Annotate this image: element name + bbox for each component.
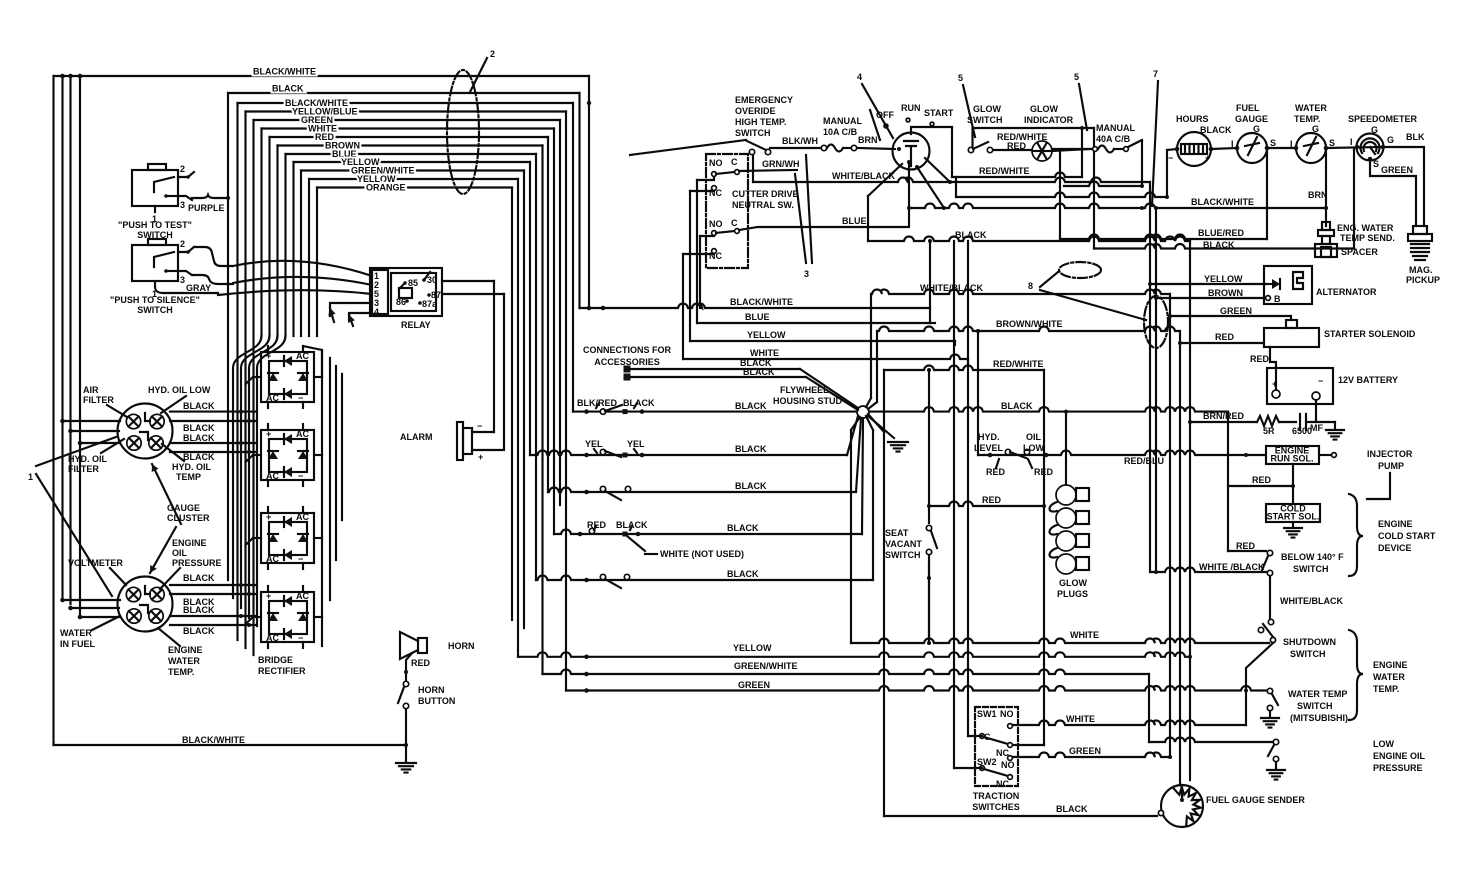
svg-text:I: I <box>1350 137 1353 147</box>
svg-text:START SOL.: START SOL. <box>1267 512 1320 522</box>
svg-text:−: − <box>1168 153 1173 163</box>
svg-text:SHUTDOWN: SHUTDOWN <box>1283 637 1336 647</box>
svg-text:BROWN/WHITE: BROWN/WHITE <box>996 319 1063 329</box>
wires left bus to upper cluster <box>63 420 121 422</box>
svg-text:S: S <box>1329 138 1335 148</box>
svg-text:BLACK/WHITE: BLACK/WHITE <box>253 67 316 77</box>
svg-text:BLUE: BLUE <box>842 216 867 226</box>
svg-text:BLACK: BLACK <box>727 569 759 579</box>
wire BLACK (top fan) <box>228 92 580 94</box>
svg-text:TEMP: TEMP <box>176 472 201 482</box>
relay box <box>370 268 442 316</box>
svg-text:+: + <box>1205 153 1210 163</box>
wire row BROWN y298 to alternator B <box>1156 297 1264 299</box>
svg-text:WATER: WATER <box>60 628 92 638</box>
starter solenoid <box>1286 320 1297 328</box>
svg-text:GREEN: GREEN <box>738 680 770 690</box>
svg-text:SWITCH: SWITCH <box>137 305 173 315</box>
svg-text:HYD. OIL LOW: HYD. OIL LOW <box>148 385 211 395</box>
wire stubs rectifier interconnect <box>303 346 322 377</box>
svg-text:WATER: WATER <box>1373 672 1405 682</box>
svg-text:YEL: YEL <box>627 439 645 449</box>
wire accessory stub 2 (BLACK) <box>624 374 631 381</box>
svg-text:BLACK: BLACK <box>183 605 215 615</box>
svg-text:LOW: LOW <box>1373 739 1394 749</box>
svg-text:GREEN: GREEN <box>1381 165 1413 175</box>
svg-text:BRN: BRN <box>858 135 878 145</box>
wire shutdown diagonal to water temp switch <box>1246 643 1273 725</box>
svg-text:NO: NO <box>1000 709 1014 719</box>
svg-text:RED: RED <box>1250 354 1270 364</box>
svg-text:HYD. OIL: HYD. OIL <box>68 454 108 464</box>
ground below water temp switch <box>1269 711 1271 716</box>
wire ignition diag to row 182 <box>925 158 950 182</box>
12V battery <box>1267 368 1333 404</box>
svg-text:RED/BLU: RED/BLU <box>1124 456 1164 466</box>
svg-text:I: I <box>1231 139 1234 149</box>
svg-text:WHITE: WHITE <box>750 348 779 358</box>
wire hours feed <box>1166 150 1168 197</box>
ground below cold start sol <box>1292 522 1294 527</box>
shutdown switch <box>1268 619 1273 624</box>
wire row GREEN/WHITE y674 <box>543 670 1150 675</box>
svg-text:RED/WHITE: RED/WHITE <box>979 166 1030 176</box>
svg-text:RED: RED <box>1215 332 1235 342</box>
svg-text:NO: NO <box>709 158 723 168</box>
wire BLUE from cutter C2 <box>739 227 907 230</box>
svg-text:10A C/B: 10A C/B <box>823 127 858 137</box>
svg-text:87a: 87a <box>422 299 438 309</box>
wire row BLUE y323 <box>697 322 935 324</box>
wire row WHITE y643 to shutdown <box>851 639 1269 644</box>
wire 40A output to hours <box>1141 141 1143 186</box>
svg-text:BLACK: BLACK <box>1056 804 1088 814</box>
svg-text:GRN/WH: GRN/WH <box>762 159 800 169</box>
wire row WHITE y359 <box>683 355 968 360</box>
svg-text:BLACK: BLACK <box>623 398 655 408</box>
wire accessory stub 1 (BLACK) <box>624 366 631 373</box>
svg-text:ALTERNATOR: ALTERNATOR <box>1316 287 1377 297</box>
svg-text:+: + <box>478 452 483 462</box>
svg-text:COLD START: COLD START <box>1378 531 1436 541</box>
ground below horn button <box>396 763 416 773</box>
horn button switch <box>403 681 408 686</box>
svg-text:BLACK: BLACK <box>955 230 987 240</box>
svg-text:−: − <box>477 421 482 431</box>
svg-text:SWITCH: SWITCH <box>735 128 771 138</box>
cutter drive neutral switch box <box>706 154 748 268</box>
glow indicator lamp symbol <box>1032 141 1052 161</box>
svg-text:HOURS: HOURS <box>1176 114 1209 124</box>
bridge rectifier unit 3 <box>261 513 314 563</box>
wire row YELLOW y341 <box>690 340 955 342</box>
wire RED (top fan) <box>270 136 549 138</box>
svg-text:B: B <box>1274 294 1281 304</box>
svg-text:FILTER: FILTER <box>68 464 99 474</box>
svg-text:SWITCH: SWITCH <box>885 550 921 560</box>
wire left bus verticals <box>52 76 54 745</box>
svg-text:WATER: WATER <box>168 656 200 666</box>
svg-text:4: 4 <box>857 72 862 82</box>
wire ignition diag to row 208 <box>915 165 919 169</box>
switch "PUSH TO TEST" <box>132 170 178 206</box>
wire row BLACK y241 <box>868 164 902 196</box>
wire row y197 (to right bundle) <box>956 193 1167 198</box>
svg-text:RED: RED <box>1236 541 1256 551</box>
svg-text:VOLTMETER: VOLTMETER <box>68 558 123 568</box>
wire water S drop to temp sender <box>1325 150 1327 226</box>
svg-text:NO: NO <box>1001 760 1015 770</box>
svg-text:G: G <box>1387 135 1394 145</box>
relay internal contacts <box>403 281 407 285</box>
svg-text:SEAT: SEAT <box>885 528 909 538</box>
callout 2 cable ellipse <box>447 70 479 194</box>
svg-text:OVERIDE: OVERIDE <box>735 106 776 116</box>
svg-text:12V BATTERY: 12V BATTERY <box>1338 375 1398 385</box>
wire RED loop to below-140F switch <box>1228 485 1293 487</box>
wire BROWN (top fan) <box>278 144 543 146</box>
svg-text:CONNECTIONS FOR: CONNECTIONS FOR <box>583 345 672 355</box>
svg-text:WHITE/BLACK: WHITE/BLACK <box>920 283 983 293</box>
svg-text:4: 4 <box>374 307 379 317</box>
svg-text:VACANT: VACANT <box>885 539 922 549</box>
gauge cluster upper circle <box>118 404 173 459</box>
wire verticals to traction switches <box>953 241 955 768</box>
brace ENGINE WATER TEMP <box>1349 630 1363 720</box>
svg-text:OIL: OIL <box>1026 432 1042 442</box>
svg-text:GLOW: GLOW <box>1030 104 1058 114</box>
svg-text:"PUSH TO SILENCE": "PUSH TO SILENCE" <box>110 295 200 305</box>
svg-text:TEMP.: TEMP. <box>168 667 194 677</box>
svg-text:HYD. OIL: HYD. OIL <box>172 462 212 472</box>
emergency override switch <box>749 149 754 154</box>
svg-text:RELAY: RELAY <box>401 320 431 330</box>
svg-text:TEMP SEND.: TEMP SEND. <box>1340 233 1395 243</box>
wire WHITE (top fan) <box>262 127 555 129</box>
svg-text:FUEL: FUEL <box>1236 103 1260 113</box>
svg-text:BLACK: BLACK <box>1001 401 1033 411</box>
svg-text:YELLOW: YELLOW <box>1204 274 1243 284</box>
svg-text:BLACK: BLACK <box>183 433 215 443</box>
svg-text:GREEN: GREEN <box>1069 746 1101 756</box>
svg-text:BLUE: BLUE <box>745 312 770 322</box>
wire row GREEN y757 from SW2 NO <box>1013 753 1170 758</box>
wire row RED/WHITE y370 <box>884 366 1044 371</box>
wire horn button to ground bus <box>405 709 407 762</box>
switch "PUSH TO SILENCE" <box>132 245 178 281</box>
svg-text:BUTTON: BUTTON <box>418 696 455 706</box>
ground at flywheel stud <box>888 442 908 452</box>
svg-text:RED: RED <box>1252 475 1272 485</box>
wire bundle transition curves <box>233 336 262 598</box>
svg-text:G: G <box>1371 125 1378 135</box>
svg-text:5: 5 <box>1074 72 1079 82</box>
svg-text:WHITE/BLACK: WHITE/BLACK <box>1280 596 1343 606</box>
svg-text:YEL: YEL <box>585 439 603 449</box>
svg-text:BELOW 140° F: BELOW 140° F <box>1281 552 1344 562</box>
svg-text:BLACK: BLACK <box>183 573 215 583</box>
svg-text:BLACK: BLACK <box>735 401 767 411</box>
eng water temp sender symbol <box>1322 222 1330 230</box>
ignition switch OFF RUN START <box>893 133 930 170</box>
wire WHITE/BLACK vertical to shutdown <box>1269 576 1271 620</box>
svg-text:SPACER: SPACER <box>1341 247 1378 257</box>
svg-text:RED: RED <box>587 520 607 530</box>
svg-text:WATER TEMP: WATER TEMP <box>1288 689 1347 699</box>
wire row BLACK/WHITE y208 <box>912 204 1326 209</box>
svg-text:30: 30 <box>427 275 437 285</box>
wire gauge supply line y148 <box>1211 148 1238 149</box>
svg-text:DEVICE: DEVICE <box>1378 543 1412 553</box>
wire bus right of rectifiers <box>321 350 323 646</box>
svg-text:MANUAL: MANUAL <box>823 116 862 126</box>
svg-text:GREEN/WHITE: GREEN/WHITE <box>734 661 798 671</box>
wire speedometer G to mag pickup <box>1383 147 1424 226</box>
svg-text:HYD.: HYD. <box>978 432 1000 442</box>
svg-text:STARTER SOLENOID: STARTER SOLENOID <box>1324 329 1416 339</box>
svg-text:BLACK: BLACK <box>183 401 215 411</box>
svg-text:85: 85 <box>408 278 418 288</box>
wires left bus to lower cluster <box>63 599 121 601</box>
svg-text:BLACK: BLACK <box>1203 240 1235 250</box>
wire row WHITE y725 <box>1013 721 1246 726</box>
svg-text:1: 1 <box>28 472 33 482</box>
svg-text:RED: RED <box>1007 141 1027 151</box>
wire arcs into relay pins <box>233 261 372 276</box>
wire row BROWN/WHITE y331 <box>877 327 1180 332</box>
svg-text:MANUAL: MANUAL <box>1096 123 1135 133</box>
wire horn to button <box>406 653 412 680</box>
svg-text:NEUTRAL SW.: NEUTRAL SW. <box>732 200 794 210</box>
svg-text:OIL: OIL <box>172 548 188 558</box>
svg-text:PLUGS: PLUGS <box>1057 589 1088 599</box>
wire row BLACK y248.5 <box>1094 244 1354 249</box>
wire YELLOW (top fan) <box>309 178 518 180</box>
wires BLACK lower cluster to rectifier bus <box>170 584 256 586</box>
svg-text:BLK/WH: BLK/WH <box>782 136 818 146</box>
svg-text:ENGINE OIL: ENGINE OIL <box>1373 751 1426 761</box>
svg-text:GREEN: GREEN <box>1220 306 1252 316</box>
svg-text:HIGH TEMP.: HIGH TEMP. <box>735 117 786 127</box>
svg-text:BLUE/RED: BLUE/RED <box>1198 228 1245 238</box>
wire BLACK/WHITE (top fan) <box>238 102 574 104</box>
svg-text:SWITCH: SWITCH <box>1297 701 1333 711</box>
svg-text:GLOW: GLOW <box>1059 578 1087 588</box>
gauge FUEL GAUGE <box>1237 133 1267 163</box>
svg-text:GLOW: GLOW <box>973 104 1001 114</box>
svg-text:SWITCH: SWITCH <box>1290 649 1326 659</box>
wire row YELLOW y284 to alternator <box>1150 283 1265 285</box>
wire row YEL-YEL black y455 <box>530 451 847 456</box>
wire speedometer S GREEN to mag pickup <box>1370 159 1416 226</box>
svg-text:RUN SOL.: RUN SOL. <box>1270 454 1313 464</box>
svg-text:BLACK/WHITE: BLACK/WHITE <box>182 735 245 745</box>
traction switches box <box>975 707 1018 786</box>
svg-text:WHITE (NOT USED): WHITE (NOT USED) <box>660 549 744 559</box>
wire YELLOW (top fan) <box>294 161 531 163</box>
wire YELLOW/BLUE (top fan) <box>246 110 567 112</box>
svg-text:BLACK: BLACK <box>183 423 215 433</box>
svg-text:TEMP.: TEMP. <box>1294 114 1320 124</box>
svg-text:BLACK: BLACK <box>727 523 759 533</box>
svg-text:ENGINE: ENGINE <box>172 538 207 548</box>
svg-text:BLACK: BLACK <box>743 367 775 377</box>
svg-text:2: 2 <box>180 239 185 249</box>
fuel gauge sender <box>1161 785 1203 827</box>
wire BLK/WH with 10A breaker to ignition <box>770 147 820 149</box>
svg-text:EMERGENCY: EMERGENCY <box>735 95 793 105</box>
wire GRAY from push-to-silence pin 1 <box>155 287 218 293</box>
svg-text:HORN: HORN <box>448 641 475 651</box>
svg-text:GRAY: GRAY <box>186 283 211 293</box>
svg-text:TRACTION: TRACTION <box>973 791 1020 801</box>
svg-text:BLACK: BLACK <box>183 626 215 636</box>
wire row BLUE/RED y239 <box>1060 235 1267 240</box>
wires cutter box to left bus <box>697 177 714 180</box>
wire fan left verticals descending <box>227 93 229 336</box>
wire row RED-BLACK y534 <box>554 530 862 535</box>
svg-text:AIR: AIR <box>83 385 99 395</box>
svg-text:S: S <box>1270 138 1276 148</box>
svg-text:RED: RED <box>982 495 1002 505</box>
svg-text:2: 2 <box>180 164 185 174</box>
svg-text:HOUSING STUD: HOUSING STUD <box>773 396 843 406</box>
svg-text:BRN/RED: BRN/RED <box>1203 411 1245 421</box>
wire row RED y343 to solenoid <box>1180 342 1264 344</box>
svg-text:RED: RED <box>411 658 431 668</box>
wire ignition top feed <box>911 127 952 134</box>
wire row YELLOW y657 <box>518 652 1190 657</box>
wire ignition to row 208 <box>907 160 911 164</box>
svg-text:START: START <box>924 108 954 118</box>
40A breaker blade <box>1128 140 1142 147</box>
svg-text:PRESSURE: PRESSURE <box>172 558 222 568</box>
wire indicator drop <box>1059 150 1061 239</box>
wire relay outputs to alarm bus <box>442 280 494 282</box>
svg-text:"PUSH TO TEST": "PUSH TO TEST" <box>118 220 192 230</box>
svg-text:ORANGE: ORANGE <box>366 183 406 193</box>
wire run sol to cold start sol <box>1292 464 1294 504</box>
svg-text:PURPLE: PURPLE <box>188 203 225 213</box>
wire GREEN (top fan) <box>254 119 561 121</box>
svg-text:WATER: WATER <box>1295 103 1327 113</box>
svg-text:IN FUEL: IN FUEL <box>60 639 96 649</box>
svg-text:BLACK: BLACK <box>1200 125 1232 135</box>
svg-text:G: G <box>1253 124 1260 134</box>
svg-text:BLK: BLK <box>1406 132 1425 142</box>
alarm symbol <box>457 422 463 460</box>
gauge cluster lower circle (voltmeter) <box>118 577 173 632</box>
bridge rectifier unit 2 <box>261 430 314 480</box>
wire indicator to 40A breaker <box>1052 149 1090 151</box>
wire glow top bus y128 <box>973 128 1095 150</box>
svg-text:PUMP: PUMP <box>1378 461 1404 471</box>
svg-text:WHITE: WHITE <box>1070 630 1099 640</box>
svg-text:(MITSUBISHI): (MITSUBISHI) <box>1290 713 1348 723</box>
svg-text:INDICATOR: INDICATOR <box>1024 115 1074 125</box>
brace engine cold start device <box>1349 494 1363 576</box>
glow plugs <box>1065 412 1067 485</box>
svg-text:MF: MF <box>1310 423 1323 433</box>
wire row RED/WHITE y177 <box>956 173 1082 178</box>
wire row BLACK (BLK/RED switch) y411.6 to flywheel stud and right side <box>573 411 857 413</box>
svg-text:PICKUP: PICKUP <box>1406 275 1440 285</box>
svg-text:TEMP.: TEMP. <box>1373 684 1399 694</box>
wire row BRN/RED y422 with resistor and capacitor <box>1190 421 1257 423</box>
svg-text:8: 8 <box>1028 281 1033 291</box>
svg-text:WHITE: WHITE <box>1066 714 1095 724</box>
wire fan right staircase verticals <box>588 76 590 308</box>
wire v930 junction <box>929 241 931 323</box>
wire WHITE/BLACK row y182 <box>752 155 754 182</box>
wire fuel S drop to BLUE/RED row <box>1266 150 1268 239</box>
svg-text:GAUGE: GAUGE <box>1235 114 1268 124</box>
svg-text:SW1: SW1 <box>977 709 997 719</box>
svg-text:HORN: HORN <box>418 685 445 695</box>
svg-text:−: − <box>1318 376 1323 386</box>
svg-text:NO: NO <box>709 219 723 229</box>
svg-text:G: G <box>1312 124 1319 134</box>
svg-text:LEVEL: LEVEL <box>974 443 1004 453</box>
wire row RED y506 <box>929 502 1044 507</box>
svg-text:C: C <box>731 157 738 167</box>
svg-text:I: I <box>1290 139 1293 149</box>
svg-text:PRESSURE: PRESSURE <box>1373 763 1423 773</box>
wire battery minus down <box>1315 400 1317 422</box>
svg-text:RED/WHITE: RED/WHITE <box>993 359 1044 369</box>
wire long verticals right bundle <box>1149 182 1151 572</box>
wire row low oil pressure y742 <box>1148 674 1150 742</box>
svg-text:ALARM: ALARM <box>400 432 433 442</box>
svg-text:ENGINE: ENGINE <box>1378 519 1413 529</box>
spacer symbol <box>1315 244 1337 257</box>
svg-text:C: C <box>731 218 738 228</box>
svg-text:INJECTOR: INJECTOR <box>1367 449 1413 459</box>
svg-text:40A C/B: 40A C/B <box>1096 134 1131 144</box>
wire BLACK/WHITE (top fan) <box>54 75 590 77</box>
svg-text:5: 5 <box>958 73 963 83</box>
wire row WHITE/BLACK y572 <box>1150 568 1266 573</box>
wire row WHITE/BLACK y294 <box>871 290 1170 295</box>
wire glow switch to indicator <box>993 149 1032 151</box>
svg-text:3: 3 <box>180 200 185 210</box>
wire GRN/WH from cutter C1 <box>739 170 797 171</box>
wire row GREEN y691 <box>566 686 1268 691</box>
svg-text:RECTIFIER: RECTIFIER <box>258 666 306 676</box>
svg-text:BLACK: BLACK <box>735 481 767 491</box>
svg-text:LOW: LOW <box>1023 443 1044 453</box>
svg-text:ENGINE: ENGINE <box>168 645 203 655</box>
wire row y186 <box>1064 182 1142 187</box>
wire row black y580 <box>536 576 873 581</box>
below 140F switch <box>1267 550 1272 555</box>
bridge rectifier unit 4 <box>261 592 314 642</box>
wire BLUE (top fan) <box>286 153 537 155</box>
svg-text:FILTER: FILTER <box>83 395 114 405</box>
wire BLACK/WHITE bottom run <box>54 744 407 746</box>
svg-text:SPEEDOMETER: SPEEDOMETER <box>1348 114 1418 124</box>
gauge WATER TEMP. <box>1296 133 1326 163</box>
svg-text:CLUSTER: CLUSTER <box>167 513 210 523</box>
svg-text:3: 3 <box>804 269 809 279</box>
wires traction to verticals <box>968 735 982 737</box>
svg-text:+: + <box>1272 379 1277 389</box>
engine run solenoid <box>1266 446 1319 464</box>
horn symbol <box>418 638 427 653</box>
svg-text:ENGINE: ENGINE <box>1373 660 1408 670</box>
svg-text:BLACK/WHITE: BLACK/WHITE <box>1191 197 1254 207</box>
wires BLACK upper cluster to rectifier bus <box>170 411 256 413</box>
